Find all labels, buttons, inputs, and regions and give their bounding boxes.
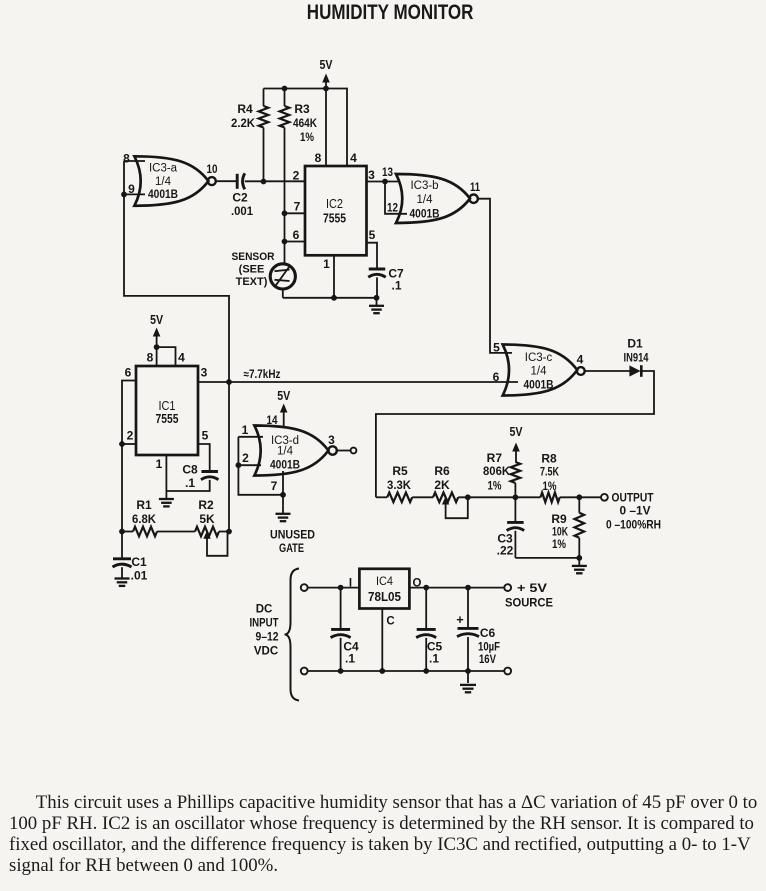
wire IC3-d inputs pins 1 and 2 <box>236 423 264 468</box>
svg-text:5V: 5V <box>320 58 334 72</box>
wire D1 cathode to detector network <box>376 371 654 497</box>
resistor R8 7.5K 1% <box>540 451 560 502</box>
svg-text:1: 1 <box>156 457 163 471</box>
junction dots on 5V rail <box>282 86 329 92</box>
caption paragraph <box>9 792 766 876</box>
wire IC2 pin 5 to C7 <box>367 228 378 269</box>
svg-text:7: 7 <box>294 200 301 214</box>
svg-text:2: 2 <box>242 451 249 465</box>
svg-text:.01: .01 <box>131 569 148 583</box>
svg-text:C6: C6 <box>480 626 496 640</box>
capacitor C4 .1 <box>331 588 359 671</box>
svg-text:C8: C8 <box>182 463 198 477</box>
potentiometer R6 2K <box>433 464 468 518</box>
capacitor C1 .01 <box>113 532 148 583</box>
NOR gate IC3-c (1/4 4001B) <box>503 345 585 396</box>
svg-text:0 –100%RH: 0 –100%RH <box>606 518 661 532</box>
capacitor C3 .22 <box>497 497 524 558</box>
terminal (IC3-d output) <box>351 448 357 454</box>
svg-text:7: 7 <box>271 479 278 493</box>
svg-text:IC3-c: IC3-c <box>525 352 553 364</box>
wire IC1 pins 8 and 4 bracket <box>147 347 186 366</box>
svg-text:2.2K: 2.2K <box>231 116 255 130</box>
wire R8 to output terminal <box>560 494 601 500</box>
ground (C3/R9) <box>572 558 587 573</box>
svg-text:R3: R3 <box>294 102 310 116</box>
humidity sensor (SEE TEXT) <box>232 251 296 289</box>
svg-text:.1: .1 <box>345 652 355 666</box>
svg-text:R7: R7 <box>487 451 503 465</box>
wire IC2 pin 3 to IC3-b input 13 <box>367 165 401 184</box>
svg-text:13: 13 <box>382 165 393 179</box>
wire sensor to ground rail <box>283 289 377 298</box>
svg-text:14: 14 <box>267 413 278 427</box>
wire C7 to ground rail <box>374 277 380 300</box>
svg-text:5V: 5V <box>510 425 524 439</box>
title <box>80 1 700 25</box>
wire DC input bottom rail <box>308 668 505 674</box>
svg-text:R1: R1 <box>136 498 152 512</box>
svg-text:6: 6 <box>125 366 132 380</box>
capacitor C7 .1 <box>368 267 404 293</box>
svg-text:+ 5V: + 5V <box>517 581 547 595</box>
wire IC3-b output pin 11 to IC3-c input 5 <box>470 180 512 355</box>
ground (IC3-d) <box>276 506 291 521</box>
svg-text:C: C <box>386 616 394 628</box>
svg-text:.1: .1 <box>429 652 439 666</box>
ground (C1) <box>115 571 130 586</box>
wire oscillator output ~7.7kHz to IC3-c input 6 <box>198 369 518 385</box>
svg-text:464K: 464K <box>293 116 317 130</box>
ground (IC1 pin 1) <box>159 491 174 506</box>
wire IC3-a output pin 10 to C2 <box>207 162 237 181</box>
IC U1: IC1 7555 timer <box>136 366 198 455</box>
wire 5V rail to IC2 pins 8 and 4 <box>264 89 358 167</box>
svg-text:VDC: VDC <box>254 646 278 658</box>
svg-text:9–12: 9–12 <box>256 632 279 644</box>
svg-text:C2: C2 <box>232 191 248 205</box>
svg-text:6.8K: 6.8K <box>132 512 156 526</box>
svg-text:5: 5 <box>369 228 376 242</box>
wire IC3-b input pin 12 <box>385 182 407 215</box>
svg-text:TEXT): TEXT) <box>236 276 268 288</box>
wire IC1 pin 6 <box>122 366 136 445</box>
DC input brace and label <box>250 569 300 701</box>
svg-text:IC2: IC2 <box>326 197 343 211</box>
svg-text:SENSOR: SENSOR <box>232 251 275 263</box>
NOR gate IC3-b (1/4 4001B) <box>396 174 478 223</box>
svg-text:R2: R2 <box>198 498 214 512</box>
svg-text:R4: R4 <box>237 102 253 116</box>
svg-text:DC: DC <box>256 604 273 616</box>
svg-text:9: 9 <box>128 182 135 196</box>
svg-text:6: 6 <box>293 228 300 242</box>
svg-text:IN914: IN914 <box>624 351 649 365</box>
svg-text:+: + <box>456 613 463 627</box>
svg-text:8: 8 <box>147 351 154 365</box>
5V supply arrow (IC2) <box>320 58 334 89</box>
wire IC1 pin 3 node down to R2 <box>226 382 232 534</box>
svg-text:78L05: 78L05 <box>368 590 401 604</box>
svg-text:.1: .1 <box>185 476 195 490</box>
svg-text:0 –1V: 0 –1V <box>620 504 651 518</box>
terminal (DC input +) <box>301 584 308 591</box>
svg-text:4: 4 <box>178 351 185 365</box>
svg-text:2K: 2K <box>434 478 450 492</box>
wire DC input rail to IC4 input <box>308 585 360 591</box>
terminal (DC input -) <box>301 668 308 675</box>
svg-text:4001B: 4001B <box>524 378 554 392</box>
svg-text:1: 1 <box>323 257 330 271</box>
svg-text:5V: 5V <box>150 313 164 327</box>
NOR gate IC3-d (1/4 4001B, unused) <box>254 426 336 556</box>
wire IC3-d input loop to pin 7 <box>238 465 286 497</box>
5V supply arrow (IC3-d pin 14) <box>267 389 291 428</box>
wire IC1 pin 3 label <box>201 366 208 380</box>
wire IC2 pin 6 <box>282 228 305 244</box>
svg-text:1/4: 1/4 <box>417 194 434 206</box>
terminal (ground source) <box>504 668 511 675</box>
svg-text:3.3K: 3.3K <box>387 478 411 492</box>
wire R6 to R7 node <box>458 494 540 500</box>
svg-text:1%: 1% <box>543 479 557 493</box>
svg-text:3: 3 <box>201 366 208 380</box>
IC U2: IC2 7555 timer <box>305 166 367 255</box>
resistor R9 10K 1% <box>551 497 584 558</box>
5V supply arrow (R7) <box>510 425 524 462</box>
svg-text:1%: 1% <box>300 130 314 144</box>
output terminal <box>601 491 661 532</box>
svg-text:12: 12 <box>387 201 398 215</box>
svg-text:GATE: GATE <box>279 543 304 555</box>
svg-text:.001: .001 <box>231 204 253 218</box>
ground (IC2 / sensor / C7) <box>369 298 384 313</box>
resistor R7 806K 1% <box>483 451 520 497</box>
wire feedback IC3-a pin 9 to IC1 pin 3 <box>124 194 229 382</box>
svg-text:INPUT: INPUT <box>250 618 279 630</box>
resistor R3 464K 1% <box>280 89 318 264</box>
svg-text:UNUSED: UNUSED <box>270 530 315 542</box>
wire IC3-c output pin 4 to D1 <box>577 353 630 372</box>
svg-text:≈7.7kHz: ≈7.7kHz <box>244 369 281 381</box>
resistor R4 2.2K <box>231 89 268 182</box>
svg-text:4001B: 4001B <box>410 207 440 221</box>
wire IC1 pin 2 node down to R1 <box>119 444 125 534</box>
capacitor C8 .1 <box>182 463 218 491</box>
svg-text:16V: 16V <box>479 652 496 666</box>
capacitor C2 .001 <box>231 173 253 218</box>
svg-text:3: 3 <box>368 168 375 182</box>
IC U4: voltage regulator IC4 78L05 <box>349 569 422 628</box>
wire IC2 pin 1 <box>323 255 337 300</box>
wire IC3-d output pin 3 <box>328 433 350 451</box>
svg-text:8: 8 <box>315 151 322 165</box>
potentiometer R2 5K <box>195 498 229 556</box>
svg-text:2: 2 <box>127 429 134 443</box>
svg-text:D1: D1 <box>627 337 643 351</box>
wire IC1 pin 5 to C8 <box>198 429 210 472</box>
wire IC4 output rail <box>409 585 504 591</box>
svg-text:4: 4 <box>350 151 357 165</box>
svg-text:3: 3 <box>328 433 335 447</box>
svg-text:IC3-a: IC3-a <box>149 163 178 175</box>
svg-text:IC4: IC4 <box>376 574 393 588</box>
wire C8 to IC1 pin 1 <box>156 455 210 491</box>
capacitor C6 10uF 16V (electrolytic) <box>456 588 500 671</box>
svg-text:6: 6 <box>493 370 500 384</box>
svg-text:5: 5 <box>493 341 500 355</box>
wire C3 / R9 ground rail <box>515 555 582 561</box>
wire R5 to R6 <box>412 496 433 498</box>
svg-text:5K: 5K <box>199 512 215 526</box>
wire C2 to IC2 pin 2 <box>245 169 305 185</box>
svg-text:806K: 806K <box>483 464 510 478</box>
NOR gate IC3-a (1/4 4001B) <box>134 156 215 206</box>
svg-text:OUTPUT: OUTPUT <box>612 491 655 505</box>
svg-text:2: 2 <box>293 169 300 183</box>
svg-text:SOURCE: SOURCE <box>505 596 553 610</box>
resistor R1 6.8K <box>122 498 157 536</box>
svg-text:C1: C1 <box>131 555 147 569</box>
svg-text:(SEE: (SEE <box>239 264 265 276</box>
wire IC3-a inputs pins 8 and 9 <box>121 152 145 198</box>
svg-text:IC3-b: IC3-b <box>410 180 438 192</box>
terminal (+5V source) <box>504 581 553 610</box>
svg-text:7555: 7555 <box>156 411 179 426</box>
svg-text:5V: 5V <box>277 389 291 403</box>
wire IC4 common pin <box>381 609 383 672</box>
svg-text:1%: 1% <box>488 479 502 493</box>
svg-text:4: 4 <box>577 353 584 367</box>
wire IC3-d pin 7 to ground <box>271 471 283 506</box>
svg-text:10: 10 <box>207 162 218 176</box>
capacitor C5 .1 <box>416 588 442 671</box>
svg-text:7.5K: 7.5K <box>540 465 559 479</box>
svg-text:.1: .1 <box>391 279 401 293</box>
wire IC1 pin 2 <box>119 429 136 447</box>
svg-text:1: 1 <box>242 423 249 437</box>
svg-text:11: 11 <box>470 180 480 194</box>
svg-text:7555: 7555 <box>323 211 346 226</box>
diode D1 IN914 <box>624 337 649 377</box>
svg-text:1/4: 1/4 <box>277 446 294 458</box>
wire R1 to R2 <box>157 531 195 533</box>
svg-text:R5: R5 <box>392 464 408 478</box>
svg-text:4001B: 4001B <box>148 187 178 201</box>
svg-text:R8: R8 <box>541 451 557 465</box>
svg-text:5: 5 <box>202 429 209 443</box>
ground (C6) <box>460 671 476 692</box>
svg-text:.22: .22 <box>497 544 514 558</box>
svg-text:1%: 1% <box>552 537 566 551</box>
resistor R5 3.3K <box>376 464 412 502</box>
wire IC2 pin 7 <box>282 200 305 217</box>
svg-text:8: 8 <box>123 152 130 166</box>
svg-text:4001B: 4001B <box>270 458 300 472</box>
svg-text:R6: R6 <box>434 464 450 478</box>
5V supply arrow (IC1) <box>150 313 164 350</box>
svg-text:1/4: 1/4 <box>531 366 548 378</box>
